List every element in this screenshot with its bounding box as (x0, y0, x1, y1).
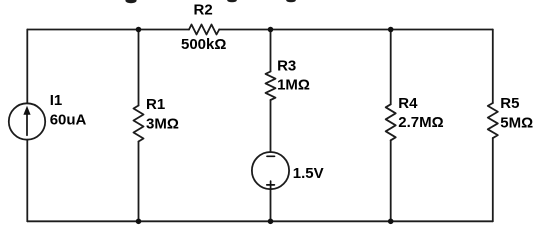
wire R3 to V1 (270, 100, 272, 152)
junction node top R1 (136, 27, 142, 33)
junction node top R4 (388, 27, 394, 33)
wire bottom rail (27, 220, 493, 222)
svg-text:1.5V: 1.5V (293, 165, 324, 182)
wire top rail right segment (219, 29, 493, 31)
wire R3 branch upper (270, 30, 272, 72)
svg-text:60uA: 60uA (50, 112, 87, 129)
svg-text:3MΩ: 3MΩ (146, 115, 179, 132)
cropped text remnant 1 (125, 0, 136, 3)
resistor R4 (386, 104, 396, 140)
junction node bottom V1 (268, 219, 274, 225)
wire R4 branch lower (390, 140, 392, 221)
current source I1 (9, 103, 45, 139)
cropped text remnant 3 (286, 0, 296, 2)
svg-text:1MΩ: 1MΩ (277, 76, 310, 93)
wire V1 to bottom rail (270, 189, 272, 221)
V1 minus sign (267, 155, 275, 157)
svg-text:R2: R2 (194, 2, 213, 19)
resistor R1 (134, 106, 144, 142)
V1 plus sign (267, 181, 275, 189)
wire left branch upper (26, 30, 28, 104)
voltage source V1 (252, 152, 289, 189)
svg-text:I1: I1 (50, 92, 63, 109)
junction node top R3 (268, 27, 274, 33)
junction node bottom R4 (388, 219, 394, 225)
svg-text:R3: R3 (277, 57, 296, 74)
svg-text:R1: R1 (146, 96, 165, 113)
cropped text remnant 2 (227, 0, 237, 2)
svg-text:5MΩ: 5MΩ (500, 115, 533, 132)
resistor R2 (189, 25, 219, 35)
wire R5 branch upper (492, 30, 494, 104)
I1 arrow shaft (26, 112, 28, 135)
svg-text:500kΩ: 500kΩ (181, 36, 226, 53)
svg-text:R4: R4 (398, 95, 418, 112)
resistor R3 (266, 72, 276, 101)
junction node bottom R1 (136, 219, 142, 225)
wire top rail left segment (27, 29, 189, 31)
wire R4 branch upper (390, 30, 392, 105)
svg-text:R5: R5 (500, 95, 519, 112)
wire R5 branch lower (492, 138, 494, 221)
wire R1 branch upper (138, 30, 140, 106)
wire left branch lower (26, 140, 28, 222)
wire R1 branch lower (138, 142, 140, 222)
svg-text:2.7MΩ: 2.7MΩ (398, 114, 443, 131)
resistor R5 (488, 103, 498, 138)
I1 arrowhead (23, 106, 30, 115)
